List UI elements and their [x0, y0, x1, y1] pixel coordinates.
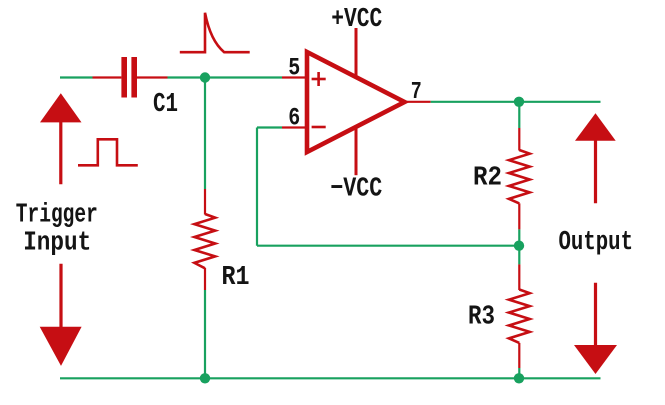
wire R3 to bottom rail: [518, 368, 520, 378]
trigger input up arrow: [40, 93, 82, 184]
svg-text:5: 5: [288, 53, 300, 82]
wire R2 to mid junction: [518, 229, 520, 245]
svg-text:R2: R2: [473, 163, 502, 193]
-VCC power line: [355, 127, 358, 176]
svg-text:R3: R3: [468, 302, 495, 332]
wire op-amp output rail: [431, 101, 601, 103]
node A junction dot: [200, 72, 210, 82]
wire pin 6 to feedback corner: [257, 126, 282, 128]
svg-text:+VCC: +VCC: [331, 5, 382, 35]
output down arrow: [574, 283, 617, 374]
svg-text:7: 7: [411, 79, 422, 106]
wire mid junction to R3: [518, 246, 520, 265]
svg-text:−VCC: −VCC: [330, 175, 382, 205]
op-amp U1: [282, 52, 431, 152]
spike waveform: [180, 13, 250, 52]
trigger pulse waveform: [78, 139, 138, 165]
wire output junction down to R2: [518, 102, 520, 128]
wire input top segment: [60, 76, 93, 78]
wire R1 to bottom rail: [204, 290, 206, 378]
resistor R1: [194, 189, 215, 290]
svg-text:Output: Output: [559, 228, 634, 258]
resistor R2: [509, 128, 530, 229]
resistor R3: [509, 264, 530, 368]
wire feedback vertical: [256, 128, 258, 246]
svg-text:6: 6: [288, 104, 300, 133]
node mid junction: [514, 241, 524, 251]
node bottom right junction: [514, 373, 524, 383]
svg-text:Trigger: Trigger: [16, 201, 98, 231]
node bottom left junction: [200, 373, 210, 383]
wire from capacitor to op-amp input: [168, 76, 283, 78]
svg-text:R1: R1: [222, 263, 250, 293]
output up arrow: [575, 113, 616, 203]
node output junction: [514, 97, 524, 107]
+VCC power line: [355, 28, 358, 78]
wire node A down to R1: [204, 78, 206, 190]
wire feedback horizontal: [257, 245, 519, 247]
wire bottom rail: [60, 377, 601, 379]
svg-text:C1: C1: [153, 90, 178, 120]
trigger input down arrow: [40, 264, 82, 366]
capacitor C1: [93, 57, 168, 98]
svg-text:Input: Input: [23, 229, 91, 259]
